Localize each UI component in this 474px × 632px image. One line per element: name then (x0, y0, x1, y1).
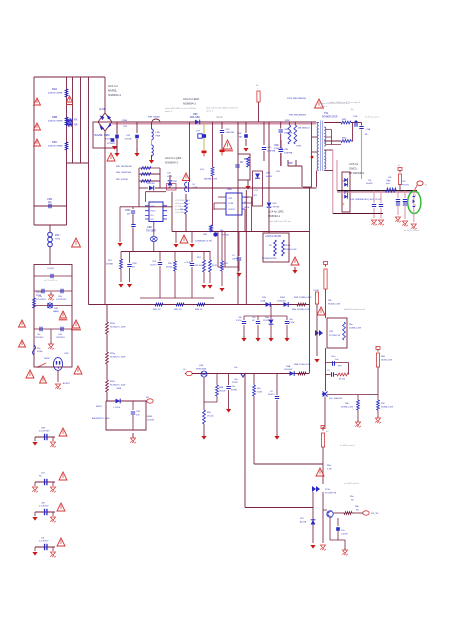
svg-text:7K/1W: 7K/1W (219, 390, 225, 392)
svg-text:C9Z: C9Z (126, 135, 131, 137)
ground (243, 148, 248, 152)
ground (117, 243, 122, 247)
ground (342, 548, 348, 555)
ground (173, 244, 178, 248)
ground (284, 336, 289, 342)
svg-text:U9R: U9R (227, 189, 232, 191)
ground (268, 336, 273, 342)
capacitor C9Y2 (184, 252, 194, 299)
wire inlet gnd (57, 370, 59, 382)
warning triangle (19, 340, 26, 347)
svg-text:5/30 YWB/SBD/B9Q 30/45 PLUS: 5/30 YWB/SBD/B9Q 30/45 PLUS (350, 199, 381, 201)
svg-text:R9F 100/3W: R9F 100/3W (116, 179, 128, 181)
svg-text:R9D 100/3W/100: R9D 100/3W/100 (116, 166, 133, 168)
wire cluster top (244, 305, 287, 317)
svg-text:BL9ABL: BL9ABL (95, 134, 104, 137)
svg-text:56/300: 56/300 (166, 266, 173, 268)
svg-text:R9E TH/3W/100: R9E TH/3W/100 (116, 172, 132, 174)
wire chain top (106, 305, 108, 323)
diode D9T (139, 183, 317, 190)
resistor R9AI (343, 322, 346, 340)
wire opto1 v (316, 318, 318, 356)
wire snub v3 (268, 208, 270, 233)
capacitor CY1 (105, 120, 128, 151)
svg-text:12V/NR: 12V/NR (263, 320, 271, 322)
ground (48, 292, 54, 300)
svg-text:RT9B: RT9B (36, 295, 42, 297)
svg-text:TNY268P: TNY268P (146, 230, 156, 232)
capacitor C9O1 (372, 191, 376, 218)
svg-text:NYP/3KV: NYP/3KV (35, 337, 44, 339)
box filter mid (81, 77, 89, 163)
svg-text:RX: RX (74, 119, 78, 122)
wire gnd bus (140, 297, 214, 299)
thermistor RT9 (33, 292, 43, 308)
svg-text:100/1W: 100/1W (147, 419, 154, 421)
warning triangle (74, 366, 82, 374)
svg-text:C9NB: C9NB (122, 120, 128, 122)
wire down right (309, 187, 311, 305)
bead L9B (203, 225, 229, 237)
resistor R9AP (344, 506, 360, 514)
svg-text:FR6-GBU: FR6-GBU (190, 117, 200, 119)
svg-text:LUV(P): LUV(P) (47, 268, 54, 270)
resistor R9F (116, 179, 151, 182)
svg-text:R9D 1K: R9D 1K (174, 309, 182, 311)
opto U92 (223, 193, 245, 215)
zener D9AC (300, 518, 315, 525)
svg-text:C9c: C9c (252, 317, 256, 319)
svg-text:2.2uF/1KV: 2.2uF/1KV (39, 540, 49, 542)
varistor Z9V chain (48, 225, 61, 265)
svg-text:AC2 for QR1 :: AC2 for QR1 : (165, 156, 183, 160)
svg-text:NC: NC (48, 201, 52, 204)
svg-text:F9R TH(4)B: F9R TH(4)B (148, 117, 160, 119)
svg-text:471NB: 471NB (125, 138, 132, 140)
capacitor C9K cluster (32, 503, 56, 523)
transformer secondary winding (324, 127, 326, 169)
ground (114, 148, 119, 157)
svg-text:D9T/R9: D9T/R9 (147, 183, 155, 185)
snubber box (167, 184, 177, 191)
ground (189, 244, 194, 248)
svg-text:R9P: R9P (342, 119, 347, 121)
svg-text:L23NB/3W+/4.7W: L23NB/3W+/4.7W (195, 241, 212, 243)
wire feedback h2 (139, 173, 160, 175)
wire left border (88, 163, 90, 305)
optocoupler PC91 (315, 330, 341, 337)
capacitor C9AE (285, 316, 295, 336)
svg-text:ac-5V(5c-wire-3: ac-5V(5c-wire-3 (340, 444, 356, 447)
wire to rectifier (362, 116, 381, 180)
resistor R9G (180, 194, 187, 232)
wire U91 top (145, 192, 166, 202)
svg-text:C9f: C9f (368, 180, 372, 182)
svg-text:R9E1: R9E1 (147, 416, 153, 418)
resistor R9B (48, 115, 68, 125)
svg-text:H510B+0.5W: H510B+0.5W (328, 303, 340, 305)
svg-text:4R: 4R (365, 134, 368, 136)
label U91 (146, 226, 156, 232)
resistor R9Y (269, 240, 276, 256)
wire +B2 v (322, 447, 324, 484)
svg-text:NC/300/TC 1/4W: NC/300/TC 1/4W (110, 356, 125, 358)
resistor R9AC (195, 303, 205, 311)
resistor R9D (116, 166, 151, 169)
wire pin line (120, 206, 172, 208)
svg-text:120/TC: 120/TC (150, 264, 157, 266)
diode D9V (260, 297, 270, 307)
bridge rectifier D9B (98, 108, 112, 131)
svg-text:3/3NB+0.5W: 3/3NB+0.5W (285, 249, 297, 251)
wire snub v (268, 122, 270, 202)
resistor R9X winding (294, 122, 301, 148)
resistor R9L (203, 402, 215, 434)
wire down right2 (309, 305, 311, 374)
capacitor C9J cluster (32, 473, 56, 493)
net flag K9 (375, 347, 380, 352)
transistor Q9U (323, 510, 333, 518)
ground (375, 416, 381, 423)
ac inlet P9 (53, 358, 62, 371)
warning triangle (59, 311, 68, 320)
inductor L9F (386, 177, 397, 192)
capacitor C9B2 (56, 289, 67, 301)
wire sec pin2 (324, 140, 341, 142)
svg-text:NS6694-1: NS6694-1 (108, 93, 121, 97)
svg-text:400KW+W/NR: 400KW+W/NR (48, 92, 63, 94)
warning triangle (59, 472, 67, 480)
wire snubber bottom (288, 160, 302, 187)
svg-text:wires X: wires X (165, 110, 173, 113)
svg-text:471x2/3KV: 471x2/3KV (36, 299, 46, 301)
diode D9X (113, 399, 121, 409)
label R9W top (287, 98, 310, 130)
svg-text:R97z: R97z (110, 381, 115, 383)
svg-text:+24V(or.OK)VR: +24V(or.OK)VR (265, 235, 281, 238)
ground (55, 382, 71, 389)
ground (355, 420, 361, 427)
svg-text:+C9 4R: +C9 4R (184, 262, 192, 264)
wire diode row (106, 400, 146, 402)
svg-text:D9R: D9R (203, 234, 208, 236)
svg-text:C9R: C9R (147, 226, 152, 229)
svg-text:PG#TN: PG#TN (402, 184, 409, 186)
label AC1 (108, 84, 121, 97)
capacitor C9S (351, 108, 362, 127)
svg-text:R9E: R9E (381, 356, 386, 358)
capacitor C9M (125, 207, 136, 252)
svg-text:S D: S D (151, 215, 155, 217)
svg-text:about 310V after EMI to 310V d: about 310V after EMI to 310V dc (206, 107, 239, 110)
resistor R9AE (294, 363, 311, 375)
capacitor C9O2 (379, 191, 383, 218)
svg-text:45/NR: 45/NR (231, 389, 237, 391)
capacitor C9A2 (36, 289, 46, 301)
svg-text:C9M: C9M (125, 210, 130, 212)
svg-text:R9Q: R9Q (342, 138, 347, 140)
svg-text:R9C 1K: R9C 1K (153, 309, 161, 311)
resistor R9Q (341, 138, 351, 143)
svg-text:4uH: 4uH (386, 183, 390, 185)
svg-text:C9P: C9P (228, 198, 233, 200)
svg-text:about QR2 aux 24V out: about QR2 aux 24V out (268, 220, 291, 223)
wire pg gnd (330, 517, 345, 548)
svg-text:PG_1N: PG_1N (371, 513, 379, 515)
svg-text:5/1W: 5/1W (257, 391, 262, 393)
capacitor CX2 (220, 122, 235, 149)
svg-text:22NF/NB: 22NF/NB (284, 152, 293, 154)
svg-text:AC: AC (351, 108, 354, 111)
svg-text:R9B 3NB-3NB/4W: R9B 3NB-3NB/4W (289, 115, 306, 117)
capacitor C9O3 (396, 191, 400, 215)
svg-text:TH9B: TH9B (116, 388, 122, 390)
resistor R9AB (174, 303, 184, 311)
ground arrow (310, 545, 315, 549)
svg-text:AC2 for EMI:: AC2 for EMI: (183, 97, 200, 101)
resistor R9GG (200, 123, 217, 226)
zener D9U (168, 175, 178, 188)
wire bottom rail (89, 304, 310, 306)
wire railA (172, 231, 309, 233)
svg-text:wires X: wires X (320, 105, 328, 108)
svg-text:BAR5L: BAR5L (108, 89, 118, 93)
power resistor R9AO (321, 433, 331, 470)
svg-text:C9J: C9J (41, 473, 45, 475)
wire ac5 left v (336, 160, 338, 191)
svg-text:63/470: 63/470 (268, 394, 275, 396)
label D9S (350, 199, 381, 201)
warning triangle (59, 428, 67, 436)
svg-text:560W+0.5W: 560W+0.5W (381, 359, 392, 361)
capacitor C9W (127, 252, 136, 283)
svg-text:5N60ZJF: 5N60ZJF (334, 398, 343, 400)
wire ac h305 (34, 305, 72, 307)
fuse F91 (148, 117, 160, 123)
inductor L91 (152, 122, 162, 158)
svg-text:3W 100: 3W 100 (195, 265, 203, 267)
svg-text:TR/7R2: TR/7R2 (273, 206, 281, 208)
ground (220, 150, 225, 156)
svg-text:L9R: L9R (276, 171, 280, 173)
svg-text:4122: 4122 (216, 115, 223, 119)
warning triangle (19, 320, 26, 327)
net flag VCC1 (256, 84, 260, 122)
resistor R9V2 (221, 261, 229, 286)
ground (255, 336, 260, 342)
warning triangle (34, 98, 41, 105)
ground (207, 285, 212, 289)
svg-text:PC9s: PC9s (325, 489, 330, 491)
svg-text:L9R: L9R (156, 132, 160, 134)
label AC4 (268, 210, 284, 219)
label T91 (322, 112, 338, 118)
svg-text:LV4B: LV4B (260, 300, 266, 302)
label SW9 (44, 353, 69, 360)
svg-text:S D: S D (151, 219, 155, 221)
ground (226, 407, 231, 413)
svg-text:C9Y: C9Y (106, 135, 111, 137)
box opto1 (327, 318, 361, 348)
wire ac h329 (34, 328, 72, 330)
capacitor C9Z (226, 374, 237, 408)
capacitor C9AG (326, 366, 343, 377)
box aux (238, 154, 250, 180)
wire central border (104, 163, 106, 305)
svg-text:off-line switcher: off-line switcher (175, 202, 190, 205)
lamp symbol (150, 222, 157, 252)
svg-text:about 220V-ac to 310V dc-bus: about 220V-ac to 310V dc-bus (320, 102, 350, 105)
ground (127, 284, 132, 288)
resistor R9T2 (195, 252, 205, 284)
transistor Q9S (196, 365, 207, 377)
connector J9 ellipse (408, 191, 421, 214)
svg-text:C9X: C9X (123, 126, 128, 128)
label AC3 (165, 156, 183, 165)
inductor L9G (185, 182, 198, 192)
svg-text:ac-5V(5c-wire-3: ac-5V(5c-wire-3 (344, 482, 360, 485)
capacitor C9C2 (35, 327, 44, 339)
gray note1 (165, 107, 197, 113)
capacitor C9F2 (262, 122, 276, 161)
svg-text:D9A: D9A (286, 365, 291, 368)
fuse F9X (33, 345, 44, 355)
transformer primary winding (317, 123, 319, 188)
warning triangle (57, 538, 65, 546)
svg-text:COM: COM (228, 203, 233, 205)
wire sec pin3 (324, 150, 333, 214)
svg-text:C9R: C9R (329, 331, 334, 333)
svg-text:C9R: C9R (274, 145, 279, 147)
svg-text:C9c: C9c (37, 334, 41, 336)
net flag +B2 (322, 262, 328, 267)
svg-text:471NB: 471NB (105, 138, 112, 140)
ground (201, 434, 206, 440)
warning triangle (222, 140, 233, 151)
label L9 val (386, 180, 390, 185)
svg-text:R9B: R9B (52, 115, 57, 119)
wire channel (67, 77, 89, 163)
capacitor C9O4 (403, 191, 407, 219)
net flag PG (352, 511, 379, 515)
svg-text:C9B: C9B (284, 149, 289, 151)
svg-text:C9X: C9X (226, 129, 231, 131)
resistor R9AF (253, 374, 262, 465)
svg-text:NTH2ODD1: NTH2ODD1 (349, 171, 365, 175)
box below bridge (93, 122, 117, 148)
svg-text:L.C200: L.C200 (113, 407, 121, 409)
warning triangle (107, 153, 115, 161)
wire main rail (112, 122, 316, 124)
fuse F9B (47, 303, 59, 313)
wire U91 drain (171, 192, 173, 232)
warning triangle (315, 99, 324, 108)
svg-text:R9B: R9B (219, 387, 224, 389)
svg-text:R9C: R9C (52, 140, 57, 144)
resistor R9AQ (344, 513, 346, 517)
warning triangle (67, 96, 73, 105)
capacitor CY2 (125, 122, 139, 151)
power resistor R9AH (324, 269, 340, 318)
svg-text:D9V: D9V (262, 297, 267, 299)
wire snub link (303, 186, 312, 188)
ground (274, 434, 279, 440)
resistor R9AJ (335, 373, 349, 380)
svg-text:0.01uF/1KV: 0.01uF/1KV (39, 430, 50, 432)
net flag LG9R (314, 290, 320, 292)
svg-text:R9H: R9H (288, 163, 293, 165)
svg-text:F9B: F9B (54, 308, 58, 310)
resistor R9C (48, 140, 68, 150)
svg-text:C9S: C9S (353, 116, 358, 118)
gray note T91 (330, 101, 361, 104)
svg-text:PC123F1YR: PC123F1YR (329, 335, 341, 337)
wire chain mid1 (106, 334, 108, 352)
wire out rail (337, 191, 417, 193)
svg-text:SW9F: SW9F (44, 358, 50, 360)
label LUV (47, 268, 54, 270)
svg-text:NC/R: NC/R (244, 207, 250, 209)
label gray ac4 (268, 220, 291, 223)
net flag R9AN (321, 426, 329, 434)
wire chain mid2 (106, 364, 108, 380)
wire pg row (333, 512, 344, 514)
svg-text:4012B: 4012B (266, 176, 272, 178)
capacitor C9P2 (34, 274, 72, 282)
snub cell box (253, 171, 273, 206)
heatsink D91 (342, 172, 350, 212)
transformer aux ladder (326, 130, 341, 145)
wire railB (121, 251, 211, 253)
resistor R9P (341, 119, 351, 124)
ground (411, 224, 417, 229)
svg-text:POWER STKR: POWER STKR (322, 116, 338, 118)
warning triangle (34, 123, 41, 130)
resistor R9AK (341, 395, 359, 421)
wire aux2 (245, 190, 247, 305)
wire bot link2 (254, 463, 323, 465)
svg-text:22NF/NB: 22NF/NB (267, 150, 276, 152)
svg-text:R9A 1.5/4B+0.5W: R9A 1.5/4B+0.5W (294, 363, 311, 366)
gray text conn3 (404, 230, 420, 232)
svg-text:PC123F1YR: PC123F1YR (325, 492, 337, 494)
box lower (106, 401, 146, 430)
connector pins (413, 191, 417, 222)
svg-text:Vstr 650V: Vstr 650V (175, 211, 185, 214)
gray note2 (320, 102, 350, 108)
svg-text:C9A: C9A (366, 128, 371, 131)
svg-text:L9f: L9f (386, 180, 389, 182)
label row (195, 241, 212, 243)
svg-text:56/3NB: 56/3NB (106, 263, 114, 265)
capacitor C9X (150, 252, 162, 299)
svg-text:471NB2: 471NB2 (107, 143, 116, 145)
capacitor C9PF (232, 232, 241, 272)
svg-text:560NB+0.5W: 560NB+0.5W (341, 406, 353, 408)
svg-text:D9R: D9R (266, 173, 271, 175)
warning triangle (71, 320, 81, 330)
wire aux drop (237, 122, 239, 154)
capacitor C9T (274, 140, 284, 166)
capacitor C9L cluster (32, 538, 56, 558)
resistor R9A (48, 87, 68, 97)
svg-text:4R: 4R (127, 213, 130, 215)
gray text conn1 (340, 444, 356, 447)
svg-text:C471P/2KV: C471P/2KV (56, 299, 67, 301)
svg-text:ALZTA: ALZTA (300, 520, 307, 523)
wire drop245 (244, 374, 246, 508)
svg-text:TH-B: TH-B (55, 238, 61, 240)
